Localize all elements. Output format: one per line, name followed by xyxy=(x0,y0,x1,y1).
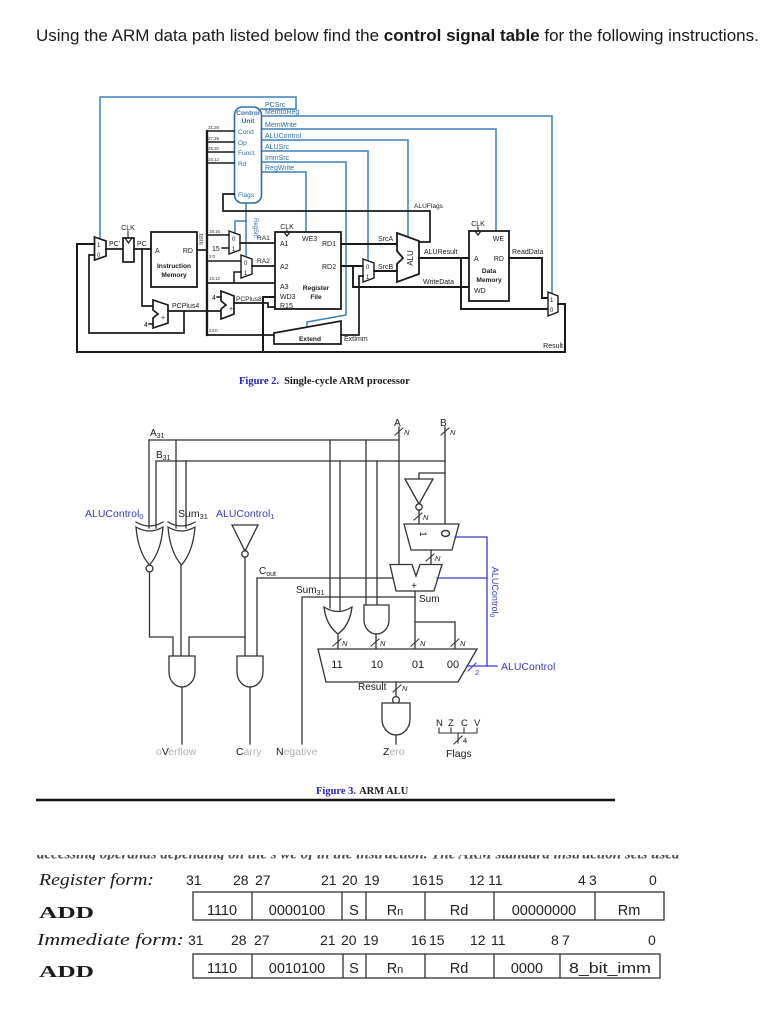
wire 23:0 to Extend xyxy=(207,334,274,336)
wire A drop to and gate xyxy=(365,440,367,605)
svg-text:MemtoReg: MemtoReg xyxy=(265,109,299,116)
wire B branch to inverter xyxy=(419,473,445,479)
data memory xyxy=(469,231,509,301)
mux RA1 xyxy=(229,231,240,254)
svg-text:4: 4 xyxy=(144,322,148,329)
wire PCPlus8 to R15 xyxy=(234,303,275,307)
svg-text:B: B xyxy=(440,418,447,429)
wire A31 drop to xor xyxy=(175,440,177,528)
wire 19:16 stub to RA1 mux xyxy=(207,234,229,236)
svg-text:Rm: Rm xyxy=(618,903,641,919)
wire RA1 xyxy=(240,242,275,244)
wire PC' xyxy=(106,248,123,250)
svg-text:Figure 3.ARM ALU: Figure 3.ARM ALU xyxy=(316,786,409,797)
svg-text:3: 3 xyxy=(589,872,597,888)
svg-text:12: 12 xyxy=(469,872,485,888)
svg-text:01: 01 xyxy=(412,659,424,671)
wire PCSrc blue top loop xyxy=(100,97,296,238)
svg-text:A31: A31 xyxy=(150,428,165,440)
svg-text:31: 31 xyxy=(186,872,202,888)
svg-text:A: A xyxy=(474,256,479,263)
svg-text:Unit: Unit xyxy=(242,118,256,125)
wire B31 drop to xor xyxy=(185,461,187,528)
svg-text:20: 20 xyxy=(342,872,358,888)
wire MemWrite xyxy=(261,129,496,231)
and gate result10 xyxy=(364,605,389,634)
svg-text:Carry: Carry xyxy=(236,746,262,758)
svg-text:4: 4 xyxy=(578,872,586,888)
mux result 4-way xyxy=(318,649,477,682)
svg-text:S: S xyxy=(349,903,359,919)
adder PCPlus8 xyxy=(221,291,234,319)
svg-text:ImmSrc: ImmSrc xyxy=(265,155,290,162)
svg-text:10: 10 xyxy=(371,659,383,671)
svg-text:12: 12 xyxy=(470,932,486,948)
wire 15:12 to A3 and RA2 mux xyxy=(207,282,275,284)
svg-text:25:20: 25:20 xyxy=(208,146,220,151)
svg-text:ALUControl0: ALUControl0 xyxy=(488,567,500,618)
wire B drop to and gate xyxy=(376,461,378,605)
wire ReadData xyxy=(509,258,548,298)
svg-text:31: 31 xyxy=(188,932,204,948)
svg-text:0010100: 0010100 xyxy=(269,961,325,977)
wire carry flag xyxy=(249,687,251,744)
Instr bus xyxy=(206,131,208,335)
svg-text:2: 2 xyxy=(475,668,479,677)
adder PCPlus4 xyxy=(153,300,168,328)
svg-text:ADD: ADD xyxy=(39,962,94,981)
svg-text:Rd: Rd xyxy=(450,903,469,919)
svg-text:Sum31: Sum31 xyxy=(178,508,208,521)
svg-text:16: 16 xyxy=(412,872,428,888)
wire RD1 SrcA xyxy=(341,243,397,245)
svg-text:28: 28 xyxy=(231,932,247,948)
gate XNOR overflow xyxy=(136,522,163,565)
wire inverted B to mux xyxy=(418,510,420,524)
svg-text:oVerflow: oVerflow xyxy=(156,746,197,758)
wire ALUControl entry xyxy=(467,665,497,667)
svg-text:WE3: WE3 xyxy=(302,236,317,243)
svg-text:WE: WE xyxy=(493,236,505,243)
wire ALUControl0 blue xyxy=(455,537,487,666)
svg-text:15:12: 15:12 xyxy=(209,276,221,281)
svg-text:WD3: WD3 xyxy=(280,294,296,301)
ALU xyxy=(397,233,419,282)
svg-text:ALUFlags: ALUFlags xyxy=(414,203,444,210)
svg-text:19: 19 xyxy=(364,872,380,888)
svg-text:S: S xyxy=(349,961,359,977)
svg-text:WriteData: WriteData xyxy=(423,279,454,286)
svg-text:Memory: Memory xyxy=(161,272,187,279)
slash N on sum input 01 xyxy=(411,639,419,646)
svg-text:1: 1 xyxy=(418,531,428,536)
wire B31 bus xyxy=(156,460,445,462)
instruction memory xyxy=(151,232,197,287)
svg-text:ALUResult: ALUResult xyxy=(424,249,458,256)
slash N on input 00 xyxy=(451,639,459,646)
svg-text:PCPlus4: PCPlus4 xyxy=(172,303,199,310)
wire RegSrc blue xyxy=(245,203,247,255)
wire A vertical to adder xyxy=(398,427,400,564)
svg-text:27:26: 27:26 xyxy=(208,136,220,141)
svg-text:ALU: ALU xyxy=(406,250,415,266)
wire Sum branch to mux input 00 xyxy=(415,622,455,649)
mux RA2 xyxy=(241,255,252,278)
svg-text:19: 19 xyxy=(363,932,379,948)
svg-text:11: 11 xyxy=(331,659,342,671)
svg-text:Extend: Extend xyxy=(299,336,321,343)
wire Result feedback to mux 1 xyxy=(77,244,95,352)
wire ImmSrc xyxy=(261,162,346,328)
svg-text:Op: Op xyxy=(238,140,247,147)
svg-text:Flags: Flags xyxy=(238,192,255,199)
svg-text:Register form:: Register form: xyxy=(38,870,154,889)
svg-text:21: 21 xyxy=(321,872,337,888)
svg-text:A2: A2 xyxy=(280,264,289,271)
svg-text:Sum: Sum xyxy=(419,594,440,605)
svg-text:Flags: Flags xyxy=(446,748,472,760)
svg-text:N: N xyxy=(342,639,348,648)
svg-text:Rn: Rn xyxy=(387,903,404,919)
svg-text:ALUControl0: ALUControl0 xyxy=(85,508,143,521)
svg-text:V: V xyxy=(474,718,481,729)
wire ALUControl xyxy=(261,140,408,236)
svg-text:RD: RD xyxy=(183,248,193,255)
svg-text:N: N xyxy=(450,428,456,437)
svg-text:Zero: Zero xyxy=(383,746,405,758)
register PC xyxy=(123,238,134,262)
svg-text:23:0: 23:0 xyxy=(209,328,218,333)
svg-text:ALUControl: ALUControl xyxy=(501,661,555,673)
wire PC xyxy=(134,248,151,250)
svg-text:SrcA: SrcA xyxy=(378,236,394,243)
svg-text:Control: Control xyxy=(236,110,260,117)
control unit U-CTRL xyxy=(235,107,262,203)
svg-text:N: N xyxy=(402,684,408,693)
svg-text:27: 27 xyxy=(255,872,271,888)
wire B vertical to mux xyxy=(444,427,446,524)
svg-text:15: 15 xyxy=(429,932,445,948)
svg-text:N: N xyxy=(435,554,441,563)
svg-text:A1: A1 xyxy=(280,241,289,248)
svg-text:27: 27 xyxy=(254,932,270,948)
svg-text:RD1: RD1 xyxy=(322,241,336,248)
wire ALUResult xyxy=(419,257,469,259)
svg-text:PC': PC' xyxy=(109,241,120,248)
table row 1 xyxy=(193,892,664,920)
wire Result to WD3 xyxy=(263,297,275,352)
wire PC to PCPlus4 adder xyxy=(142,249,153,306)
mux B/notB xyxy=(404,524,459,550)
wire ALUSrc xyxy=(261,151,368,260)
wire B31 drop to xnor xyxy=(155,461,157,528)
svg-text:31:28: 31:28 xyxy=(208,125,220,130)
gate XOR sum31 xyxy=(168,522,195,565)
svg-text:Figure 2.Single-cycle ARM proc: Figure 2.Single-cycle ARM processor xyxy=(239,376,410,387)
wire xnor out to overflow and xyxy=(150,572,174,656)
svg-text:accessing operands depending o: accessing operands depending on the s we… xyxy=(37,847,680,863)
wire 3:0 stub to RA2 mux xyxy=(207,260,241,262)
wire RegWrite xyxy=(261,172,306,232)
svg-text:A: A xyxy=(394,418,401,429)
svg-text:28: 28 xyxy=(233,872,249,888)
svg-text:Memory: Memory xyxy=(476,277,502,284)
svg-text:RegWrite: RegWrite xyxy=(265,165,294,172)
wire A31 bus xyxy=(149,439,399,441)
svg-text:0: 0 xyxy=(649,872,657,888)
svg-text:WD: WD xyxy=(474,288,486,295)
wire SrcB xyxy=(374,270,397,272)
svg-text:15: 15 xyxy=(212,246,220,253)
svg-text:ALUControl: ALUControl xyxy=(265,133,302,140)
svg-text:N: N xyxy=(423,513,429,522)
svg-text:RA2: RA2 xyxy=(257,258,270,265)
and gate carry xyxy=(237,656,263,687)
adder xyxy=(390,565,442,592)
svg-text:1110: 1110 xyxy=(207,961,237,977)
svg-text:Using the ARM data path listed: Using the ARM data path listed below fin… xyxy=(36,26,759,45)
svg-text:Cond: Cond xyxy=(238,129,254,136)
svg-text:File: File xyxy=(310,294,322,301)
wire PCPlus4 xyxy=(168,310,221,312)
bit range labels xyxy=(208,125,220,162)
wire A31 drop to xnor xyxy=(148,440,150,528)
wire Sum31 negative xyxy=(302,597,415,744)
svg-text:Negative: Negative xyxy=(276,746,318,758)
svg-text:11: 11 xyxy=(488,872,503,888)
wire MemtoReg xyxy=(261,116,552,293)
svg-text:Instruction: Instruction xyxy=(157,263,191,270)
svg-text:00000000: 00000000 xyxy=(512,903,577,919)
mux SrcB xyxy=(363,259,374,282)
svg-text:Result: Result xyxy=(358,682,387,693)
svg-text:+: + xyxy=(161,315,165,322)
wire ALUResult branch to result mux xyxy=(461,258,548,309)
svg-text:00: 00 xyxy=(447,659,459,671)
horizontal rule xyxy=(36,799,615,802)
svg-text:7: 7 xyxy=(562,932,570,948)
control unit input stubs xyxy=(207,131,234,163)
svg-text:Rd: Rd xyxy=(238,161,247,168)
svg-text:11: 11 xyxy=(491,932,506,948)
svg-text:8_bit_imm: 8_bit_imm xyxy=(569,961,651,977)
wire PCPlus4 feedback to mux 0 xyxy=(89,255,184,333)
svg-text:R15: R15 xyxy=(280,303,293,310)
svg-text:Register: Register xyxy=(303,285,330,292)
svg-text:0000100: 0000100 xyxy=(269,903,325,919)
wire inverter out branch xyxy=(244,557,246,656)
svg-text:N: N xyxy=(420,639,426,648)
wire A drop to or gate xyxy=(329,440,331,608)
svg-text:ExtImm: ExtImm xyxy=(344,336,368,343)
wire Cout xyxy=(257,578,393,656)
svg-text:Immediate form:: Immediate form: xyxy=(36,930,184,949)
svg-text:3:0: 3:0 xyxy=(209,254,216,259)
wire and to mux xyxy=(375,634,377,649)
svg-text:15:12: 15:12 xyxy=(208,157,220,162)
svg-text:0000: 0000 xyxy=(511,961,543,977)
svg-text:RD: RD xyxy=(494,256,504,263)
svg-text:ReadData: ReadData xyxy=(512,249,544,256)
svg-text:4: 4 xyxy=(212,295,216,302)
svg-text:N: N xyxy=(436,718,443,729)
svg-text:ALUSrc: ALUSrc xyxy=(265,144,290,151)
svg-text:PCPlus8: PCPlus8 xyxy=(236,296,262,303)
svg-text:0: 0 xyxy=(648,932,656,948)
or gate result11 xyxy=(324,607,352,634)
wire Result xyxy=(395,682,397,697)
svg-text:A3: A3 xyxy=(280,284,289,291)
svg-text:16: 16 xyxy=(411,932,427,948)
and gate overflow xyxy=(169,656,195,687)
wire or to mux xyxy=(337,634,339,649)
svg-text:SrcB: SrcB xyxy=(378,264,394,271)
wire Sum to mux input 01 xyxy=(414,591,416,649)
wire WriteData xyxy=(353,266,469,287)
svg-text:Rn: Rn xyxy=(387,961,404,977)
cut-off text line xyxy=(37,847,680,863)
svg-text:Rd: Rd xyxy=(450,961,469,977)
svg-text:ADD: ADD xyxy=(39,903,94,922)
svg-text:4: 4 xyxy=(463,736,467,745)
wire Result xyxy=(77,304,565,352)
svg-text:C: C xyxy=(461,718,468,729)
register file xyxy=(275,232,341,309)
wire overflow flag xyxy=(181,687,183,744)
svg-text:+: + xyxy=(229,306,233,313)
wire mux to adder xyxy=(430,550,432,564)
svg-text:PC: PC xyxy=(137,241,147,248)
zero gate xyxy=(393,697,400,704)
wire ExtImm xyxy=(341,276,363,335)
wire zero flag xyxy=(395,735,397,744)
svg-text:20: 20 xyxy=(341,932,357,948)
svg-text:B31: B31 xyxy=(156,450,171,462)
wire ALUFlags xyxy=(223,194,430,242)
svg-text:Z: Z xyxy=(448,718,454,729)
wire xor out to overflow and xyxy=(180,565,182,656)
svg-text:Sum31: Sum31 xyxy=(296,585,324,597)
bit numbers row 1 xyxy=(186,872,657,888)
svg-text:Result: Result xyxy=(543,343,563,350)
svg-text:Cout: Cout xyxy=(259,566,276,578)
svg-text:8: 8 xyxy=(551,932,559,948)
svg-text:MemWrite: MemWrite xyxy=(265,122,297,129)
svg-text:A: A xyxy=(155,248,160,255)
svg-text:Data: Data xyxy=(482,268,497,275)
wire ALUControl0 to adder cin xyxy=(437,577,487,579)
extend unit xyxy=(274,321,341,344)
svg-text:RD2: RD2 xyxy=(322,264,336,271)
svg-text:1110: 1110 xyxy=(207,903,237,919)
svg-text:RA1: RA1 xyxy=(257,235,270,242)
bit numbers row 2 xyxy=(188,932,656,948)
svg-text:N: N xyxy=(460,639,466,648)
svg-text:N: N xyxy=(404,428,410,437)
inverter B xyxy=(405,479,433,504)
svg-text:+: + xyxy=(411,581,417,592)
inverter ALUControl1 xyxy=(232,525,258,551)
svg-text:15: 15 xyxy=(428,872,444,888)
wire B drop to or gate xyxy=(339,461,341,610)
wire RD2 xyxy=(341,265,363,267)
wire RA2 xyxy=(252,265,275,267)
svg-text:19:16: 19:16 xyxy=(209,229,221,234)
svg-text:PCSrc: PCSrc xyxy=(265,102,286,109)
svg-text:Funct: Funct xyxy=(238,150,255,157)
svg-text:Instr: Instr xyxy=(199,233,205,245)
svg-text:ALUControl1: ALUControl1 xyxy=(216,508,274,521)
wire RD to bus xyxy=(197,249,207,251)
mux PC source xyxy=(95,237,107,260)
mux Result xyxy=(548,292,558,316)
svg-text:21: 21 xyxy=(320,932,336,948)
svg-text:N: N xyxy=(380,639,386,648)
table row 2 xyxy=(193,954,660,978)
